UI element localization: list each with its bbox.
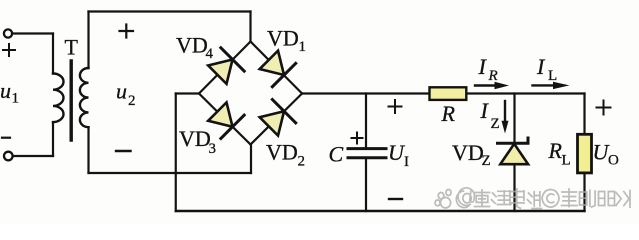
svg-text:VD: VD <box>267 26 299 51</box>
diode VD3 <box>208 102 244 138</box>
wire positive rail right <box>466 92 584 94</box>
svg-text:VD: VD <box>452 140 484 165</box>
wire primary bottom <box>13 155 53 157</box>
current arrow IL <box>533 82 570 89</box>
transformer core <box>69 61 72 140</box>
svg-text:R: R <box>488 68 498 84</box>
svg-text:3: 3 <box>209 141 217 157</box>
wire zener branch lower <box>513 164 515 211</box>
bridge edge lower-left <box>199 94 251 145</box>
label UO <box>593 140 620 169</box>
plus sign u2 <box>120 25 134 38</box>
resistor R <box>430 87 467 100</box>
capacitor C plate top <box>348 147 386 150</box>
label u2 <box>116 78 136 109</box>
svg-text:2: 2 <box>298 154 306 170</box>
diode VD2 <box>260 100 296 136</box>
wire capacitor branch upper <box>365 94 367 149</box>
diode VD1 <box>260 51 296 87</box>
wire capacitor branch lower <box>365 158 367 211</box>
label IZ <box>480 98 500 132</box>
current arrow IZ <box>502 101 509 134</box>
label IL <box>536 54 557 84</box>
resistor RL <box>578 134 592 173</box>
svg-text:u: u <box>116 78 127 103</box>
diode VD4 <box>208 48 244 84</box>
svg-text:4: 4 <box>206 46 214 62</box>
svg-text:O: O <box>608 153 619 169</box>
svg-text:Z: Z <box>482 153 491 169</box>
transformer secondary winding <box>80 68 89 127</box>
svg-text:I: I <box>478 54 488 79</box>
wire secondary top edge <box>89 10 251 12</box>
zener diode VDZ cathode bar <box>498 138 529 143</box>
svg-text:u: u <box>0 78 11 103</box>
svg-text:I: I <box>536 54 546 79</box>
wire primary lead upper <box>52 34 54 74</box>
wire primary lead lower <box>52 122 54 156</box>
wire primary top <box>12 32 53 34</box>
label VD4 <box>176 33 214 63</box>
svg-text:R: R <box>548 138 563 163</box>
wire load branch lower <box>583 173 585 211</box>
svg-text:VD: VD <box>176 33 208 58</box>
svg-text:VD: VD <box>179 126 211 151</box>
wire negative drop <box>175 94 177 212</box>
label IR <box>478 54 498 84</box>
label RL <box>548 138 571 169</box>
bridge edge upper-left <box>199 42 251 94</box>
wire drop to bridge top <box>249 12 251 42</box>
svg-text:I: I <box>480 98 490 123</box>
zener diode VDZ triangle <box>500 144 528 164</box>
minus sign u1 <box>2 137 10 139</box>
bridge edge lower-right <box>251 94 303 145</box>
wire secondary lead lower <box>87 127 89 173</box>
svg-text:T: T <box>65 35 79 60</box>
svg-text:I: I <box>404 154 409 170</box>
terminal bottom-left <box>4 152 13 161</box>
svg-text:R: R <box>441 101 456 126</box>
terminal top-left <box>4 29 12 37</box>
svg-text:Z: Z <box>491 116 500 132</box>
wire load branch upper <box>583 94 585 135</box>
wire bottom rail <box>176 210 585 212</box>
plus sign UI <box>389 100 402 113</box>
plus sign UO <box>597 101 611 115</box>
svg-text:1: 1 <box>299 39 307 55</box>
label VD3 <box>179 126 216 157</box>
svg-text:1: 1 <box>12 91 20 107</box>
svg-text:L: L <box>562 153 571 169</box>
wire zener branch upper <box>513 94 515 144</box>
label VD1 <box>267 26 306 56</box>
plus sign u1 <box>3 44 15 56</box>
current arrow IR <box>475 82 509 89</box>
label u1 <box>0 78 19 107</box>
wire rise to bridge bottom <box>250 145 252 174</box>
svg-text:VD: VD <box>266 140 298 165</box>
label VDZ <box>452 140 491 169</box>
wire secondary lead upper <box>87 12 89 69</box>
capacitor C plate bottom <box>348 156 386 159</box>
svg-text:2: 2 <box>128 93 136 109</box>
label UI <box>388 140 409 170</box>
wire secondary bottom edge <box>89 172 252 174</box>
watermark <box>435 188 630 209</box>
minus sign u2 <box>116 150 131 152</box>
bridge edge upper-right <box>251 42 303 94</box>
wire positive rail left <box>302 92 430 94</box>
label VD2 <box>266 140 305 170</box>
minus sign UI <box>389 198 402 200</box>
svg-text:C: C <box>329 142 344 167</box>
svg-text:L: L <box>548 68 557 84</box>
wire bridge left corner stub <box>176 92 199 94</box>
plus sign capacitor <box>352 133 363 144</box>
transformer primary winding <box>53 73 64 122</box>
